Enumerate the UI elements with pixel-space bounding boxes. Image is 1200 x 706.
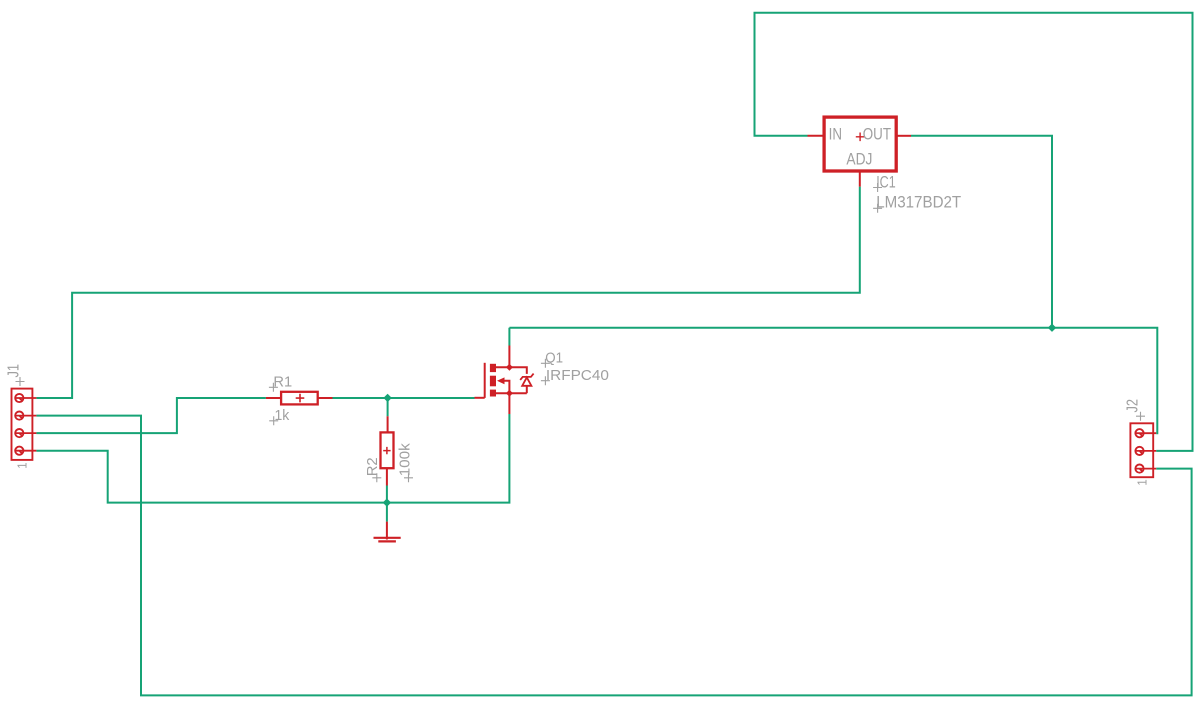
svg-text:Q1: Q1 xyxy=(545,350,563,367)
svg-text:ADJ: ADJ xyxy=(846,150,872,168)
svg-text:1: 1 xyxy=(14,463,29,469)
svg-text:R2: R2 xyxy=(364,457,381,476)
svg-text:R1: R1 xyxy=(273,374,292,391)
svg-text:J1: J1 xyxy=(6,364,23,378)
svg-text:1k: 1k xyxy=(275,407,290,424)
svg-text:J2: J2 xyxy=(1124,399,1141,413)
svg-text:IRFPC40: IRFPC40 xyxy=(546,367,609,384)
svg-text:100k: 100k xyxy=(396,443,413,477)
svg-text:OUT: OUT xyxy=(863,126,891,144)
svg-text:1: 1 xyxy=(1134,479,1149,485)
svg-text:IC1: IC1 xyxy=(876,173,896,191)
svg-text:LM317BD2T: LM317BD2T xyxy=(876,193,961,211)
svg-text:IN: IN xyxy=(829,126,842,144)
